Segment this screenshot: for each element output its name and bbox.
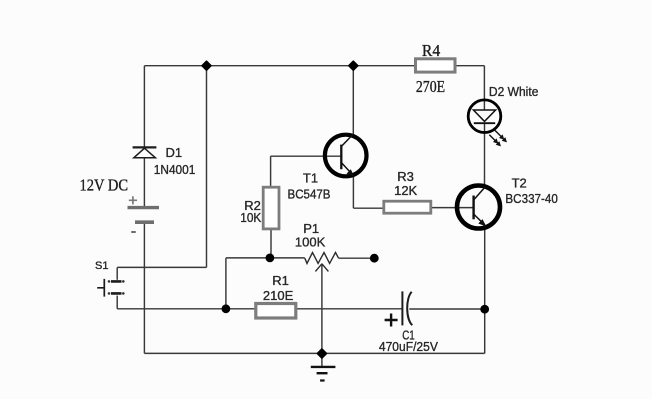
svg-text:470uF/25V: 470uF/25V bbox=[379, 339, 438, 354]
svg-text:1N4001: 1N4001 bbox=[154, 162, 196, 177]
svg-text:R3: R3 bbox=[397, 169, 414, 184]
svg-text:D1: D1 bbox=[166, 145, 183, 160]
svg-text:T1: T1 bbox=[303, 171, 318, 186]
svg-text:R4: R4 bbox=[422, 41, 441, 60]
svg-text:10K: 10K bbox=[240, 210, 261, 225]
svg-text:12V DC: 12V DC bbox=[80, 176, 129, 195]
svg-text:210E: 210E bbox=[263, 288, 294, 303]
svg-text:BC337-40: BC337-40 bbox=[505, 191, 558, 206]
svg-text:100K: 100K bbox=[295, 235, 326, 250]
svg-text:12K: 12K bbox=[394, 183, 417, 198]
svg-text:BC547B: BC547B bbox=[288, 186, 331, 201]
svg-text:T2: T2 bbox=[512, 175, 527, 190]
svg-text:R1: R1 bbox=[272, 273, 289, 288]
svg-text:S1: S1 bbox=[95, 260, 108, 272]
svg-text:D2 White: D2 White bbox=[489, 84, 539, 99]
svg-text:270E: 270E bbox=[416, 77, 445, 96]
